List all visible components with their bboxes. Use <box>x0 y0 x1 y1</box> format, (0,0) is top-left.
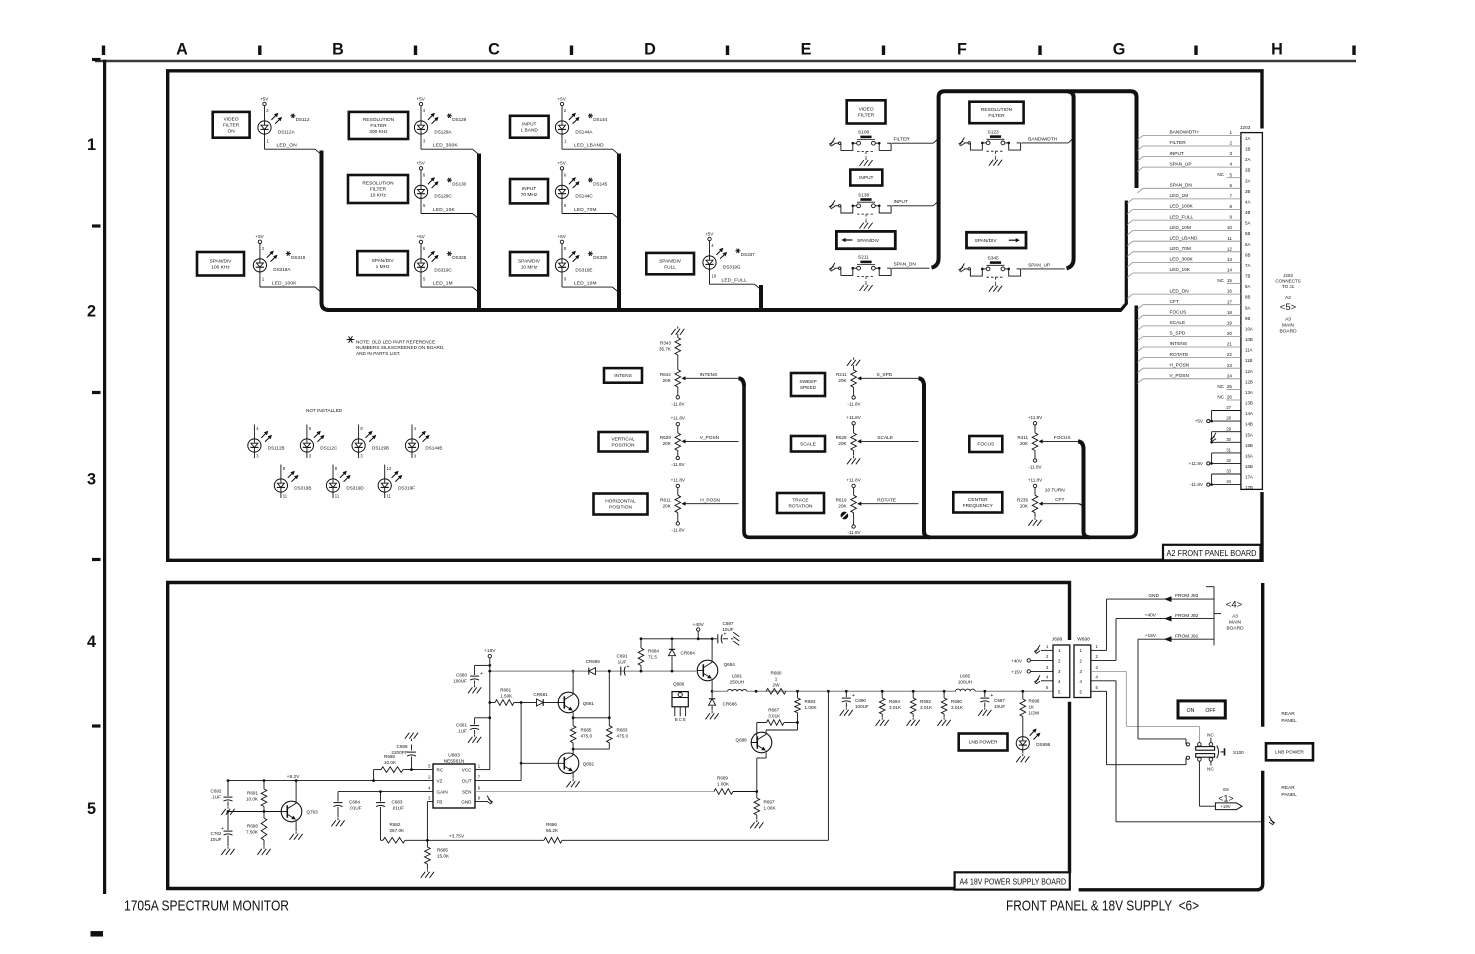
svg-text:FREQUENCY: FREQUENCY <box>963 503 994 509</box>
svg-text:+40V: +40V <box>1011 658 1023 663</box>
J203 pin 20 S_SPD <box>1137 337 1143 342</box>
svg-text:2B: 2B <box>1245 168 1250 173</box>
wire feedback +3.75V <box>381 839 384 841</box>
svg-text:3A: 3A <box>1245 178 1250 183</box>
svg-text:LED_300K: LED_300K <box>1170 257 1194 263</box>
svg-text:FILTER: FILTER <box>894 137 911 143</box>
svg-text:SWEEP: SWEEP <box>799 379 816 385</box>
wire LED_70M to bus <box>561 198 563 213</box>
svg-text:300 KHz: 300 KHz <box>369 129 388 135</box>
svg-text:30: 30 <box>1226 437 1231 442</box>
wire main output rail <box>712 690 727 692</box>
svg-text:A3: A3 <box>1285 317 1291 323</box>
resistor R685 15.0K <box>426 840 428 847</box>
svg-text:NC: NC <box>1217 172 1224 177</box>
capacitor C690 100UF <box>845 690 848 693</box>
svg-text:1.00K: 1.00K <box>764 806 777 811</box>
wire U683 FB <box>427 801 433 803</box>
svg-text:SPAN/DIV: SPAN/DIV <box>518 258 541 264</box>
svg-text:3.01K: 3.01K <box>951 705 964 710</box>
bus top curve col pot3 <box>1078 441 1084 449</box>
svg-text:+11.8V: +11.8V <box>1189 461 1204 466</box>
J203 pin 3 INPUT <box>1137 157 1143 162</box>
J203 pin 8 LED_100K <box>1127 210 1133 215</box>
svg-text:SPAN_DN: SPAN_DN <box>1170 183 1193 189</box>
svg-text:H: H <box>1271 41 1283 59</box>
capacitor C691 1UF <box>620 667 622 676</box>
J203 pin 4 SPAN_UP <box>1137 167 1143 172</box>
svg-text:CR681: CR681 <box>533 692 548 697</box>
svg-text:20K: 20K <box>663 504 672 509</box>
svg-text:VZ: VZ <box>437 778 443 783</box>
J203 pin 10 LED_10M <box>1127 231 1133 236</box>
svg-text:ROTATE: ROTATE <box>1170 352 1189 358</box>
svg-text:R683: R683 <box>617 728 628 733</box>
svg-text:C684: C684 <box>349 800 360 805</box>
svg-text:R619: R619 <box>836 498 847 503</box>
wire U683 SEN <box>475 791 714 793</box>
svg-text:+5V: +5V <box>417 161 426 166</box>
svg-text:INTENS: INTENS <box>614 373 632 379</box>
svg-text:LED_300K: LED_300K <box>433 143 458 149</box>
wire R693 to Q688 collector <box>766 729 797 731</box>
not-installed LED DS319F <box>384 465 386 480</box>
svg-text:R211: R211 <box>836 372 847 377</box>
old-ref asterisk DS330 <box>588 253 593 255</box>
svg-text:PANEL: PANEL <box>1281 718 1297 724</box>
svg-text:ROTATE: ROTATE <box>877 497 896 503</box>
svg-text:2A: 2A <box>1245 157 1250 162</box>
svg-text:1705A SPECTRUM MONITOR: 1705A SPECTRUM MONITOR <box>124 897 289 914</box>
svg-text:R697: R697 <box>764 800 775 805</box>
legend box VERTICAL POSITION <box>599 432 648 452</box>
resistor R686 56.2K <box>544 838 562 844</box>
J203 pin pair 29/30 ground <box>1212 431 1241 433</box>
svg-text:DS319: DS319 <box>291 255 305 260</box>
legend box LNB POWER <box>959 734 1008 751</box>
svg-text:9A: 9A <box>1245 305 1250 310</box>
pot R619 ROTATE <box>851 495 857 513</box>
svg-text:11: 11 <box>387 494 392 499</box>
svg-text:2: 2 <box>87 303 96 321</box>
transistor Q684 <box>697 660 718 681</box>
not-installed LED DS144B <box>411 425 413 440</box>
svg-text:SPAN_UP: SPAN_UP <box>1170 161 1192 167</box>
svg-text:6: 6 <box>1229 183 1232 188</box>
wire GND to main board <box>1107 598 1215 600</box>
svg-text:+5V: +5V <box>417 234 426 239</box>
front panel legend box SPAN/DIV FULL <box>646 253 694 274</box>
svg-text:56.2K: 56.2K <box>546 828 559 833</box>
svg-text:100 KHz: 100 KHz <box>211 264 230 270</box>
svg-text:4A: 4A <box>1245 200 1250 205</box>
J698 pin 4 chassis <box>1041 680 1053 682</box>
column ruler tick marks <box>102 46 105 56</box>
svg-text:S100: S100 <box>1233 750 1244 755</box>
svg-text:14A: 14A <box>1245 411 1253 416</box>
svg-text:DS129A: DS129A <box>434 129 452 134</box>
J203 pin pair 27/28 +5V <box>1212 410 1241 412</box>
resistor R688 10.0K <box>381 767 403 773</box>
svg-text:HORIZONTAL: HORIZONTAL <box>605 499 636 505</box>
wire LED_100K to bus <box>259 272 261 287</box>
svg-text:+8.2V: +8.2V <box>287 774 300 780</box>
svg-text:3: 3 <box>87 471 96 489</box>
wire LED_10K to bus <box>420 198 422 213</box>
svg-text:E6: E6 <box>1223 787 1229 792</box>
svg-text:B C E: B C E <box>675 717 686 722</box>
svg-text:R685: R685 <box>581 728 592 733</box>
ground U683 GND pin <box>475 801 487 803</box>
inductor L685 100UH <box>956 689 976 691</box>
svg-text:R681: R681 <box>500 687 511 692</box>
svg-text:NC: NC <box>1207 732 1214 737</box>
wire FOCUS net <box>1047 440 1079 442</box>
svg-text:35.7K: 35.7K <box>659 347 672 352</box>
neg 11.8V below R629 <box>677 451 679 457</box>
svg-text:20K: 20K <box>838 378 847 383</box>
svg-text:LED_70M: LED_70M <box>574 207 597 213</box>
svg-text:+18V: +18V <box>1220 804 1230 809</box>
svg-text:FILTER: FILTER <box>1170 140 1187 146</box>
resistor R693 1.00K <box>796 690 799 693</box>
svg-text:S_SPD: S_SPD <box>877 372 893 378</box>
svg-text:LED_1M: LED_1M <box>1170 193 1189 199</box>
wire LED_LBAND to bus <box>561 134 563 149</box>
legend box SPAN/DIV down <box>836 231 895 248</box>
svg-text:1 MHz: 1 MHz <box>376 264 390 270</box>
ground below R236 <box>1034 513 1036 517</box>
svg-text:10A: 10A <box>1245 327 1253 332</box>
svg-text:INPUT: INPUT <box>859 175 873 181</box>
svg-text:LED_100K: LED_100K <box>1170 204 1194 210</box>
J203 pin pair 33/34 -11.8V <box>1212 473 1241 475</box>
wire ROTATE net <box>865 503 919 505</box>
svg-text:9: 9 <box>1229 215 1232 220</box>
svg-text:15B: 15B <box>1245 443 1253 448</box>
wire U683 OUT <box>475 780 521 782</box>
svg-text:+11.8V: +11.8V <box>1028 415 1043 420</box>
wire LED_1M to bus <box>420 272 422 287</box>
svg-text:C688: C688 <box>397 744 408 749</box>
not-installed LED DS129B <box>358 425 360 440</box>
svg-text:LED_10K: LED_10K <box>433 207 456 213</box>
A4 board outline <box>168 583 1070 889</box>
svg-text:28: 28 <box>1226 416 1231 421</box>
svg-text:Q681: Q681 <box>583 701 595 706</box>
svg-text:5: 5 <box>1229 172 1232 177</box>
bus switch column F <box>1067 91 1074 268</box>
J203 pin 16 LED_ON <box>1127 294 1133 299</box>
svg-text:SCALE: SCALE <box>877 435 893 441</box>
svg-text:10B: 10B <box>1245 337 1253 342</box>
svg-text:J203: J203 <box>1283 273 1293 278</box>
screwdriver adjust mark <box>841 512 848 519</box>
svg-text:CR685: CR685 <box>586 659 601 664</box>
svg-text:SPAN_UP: SPAN_UP <box>1028 262 1050 268</box>
svg-text:R693: R693 <box>805 699 816 704</box>
svg-text:A2: A2 <box>1285 295 1291 301</box>
svg-text:-11.8V: -11.8V <box>847 530 861 535</box>
svg-text:+40V: +40V <box>1145 613 1157 619</box>
bus vertical col C <box>617 154 621 312</box>
svg-text:R692: R692 <box>920 699 931 704</box>
bus top curve col pot1 <box>739 378 745 386</box>
pot R211 S_SPD <box>851 370 857 387</box>
svg-text:+11.8V: +11.8V <box>671 415 686 420</box>
svg-text:FULL: FULL <box>664 264 676 270</box>
svg-text:FILTER: FILTER <box>988 113 1005 119</box>
svg-text:GND: GND <box>461 799 472 804</box>
svg-text:6A: 6A <box>1245 242 1250 247</box>
svg-text:FROM J92: FROM J92 <box>1175 613 1199 619</box>
old-ref asterisk DS145 <box>588 179 593 181</box>
svg-text:ON: ON <box>1187 708 1195 714</box>
diode CR684 <box>671 639 673 649</box>
pot R628 SCALE <box>851 433 857 451</box>
legend box ON OFF <box>1178 701 1225 718</box>
capacitor C697 10UF <box>698 638 717 640</box>
wire INTENS net <box>689 377 739 379</box>
svg-text:FILTER: FILTER <box>370 187 387 193</box>
svg-text:+11.8V: +11.8V <box>1028 477 1043 482</box>
svg-text:8: 8 <box>1229 204 1232 209</box>
J203 pin 22 ROTATE <box>1137 358 1143 363</box>
svg-text:NUMBERS SILKSCREENED ON BOARD,: NUMBERS SILKSCREENED ON BOARD, <box>356 345 445 350</box>
border frame top ruler line <box>95 60 1356 63</box>
pot R611 H_POSN <box>675 495 681 513</box>
wire Q682 base <box>520 703 522 781</box>
front panel legend box SPAN/DIV 100 KHz <box>197 252 244 276</box>
bus pot collector <box>744 306 1136 538</box>
svg-text:A4 18V POWER SUPPLY BOARD: A4 18V POWER SUPPLY BOARD <box>960 877 1067 887</box>
svg-text:INPUT: INPUT <box>1170 151 1184 157</box>
svg-text:C691: C691 <box>617 653 628 658</box>
svg-text:CENTER: CENTER <box>968 497 988 503</box>
svg-text:INPUT: INPUT <box>522 186 536 192</box>
svg-text:R698: R698 <box>1029 699 1040 704</box>
legend box SPAN/DIV up <box>967 232 1027 248</box>
svg-text:R687: R687 <box>768 708 779 713</box>
svg-text:V_POSN: V_POSN <box>1170 373 1190 379</box>
capacitor C683 .01UF <box>380 792 382 802</box>
svg-text:+3.75V: +3.75V <box>449 833 465 839</box>
svg-text:20K: 20K <box>1020 441 1029 446</box>
svg-text:1: 1 <box>87 136 96 154</box>
svg-text:B: B <box>332 41 344 59</box>
not-installed LED DS319D <box>332 465 334 480</box>
svg-text:8A: 8A <box>1245 284 1250 289</box>
svg-text:24: 24 <box>1227 373 1233 378</box>
diode CR685 <box>589 668 596 675</box>
svg-text:DS144A: DS144A <box>575 129 593 134</box>
svg-text:5B: 5B <box>1245 231 1250 236</box>
svg-text:26: 26 <box>1227 395 1233 400</box>
svg-text:SPAN_DN: SPAN_DN <box>894 262 917 268</box>
svg-text:SPAN/DIV: SPAN/DIV <box>209 258 232 264</box>
resistor R687 3.01K <box>757 722 767 724</box>
svg-text:J203: J203 <box>1240 125 1251 131</box>
svg-text:DS330: DS330 <box>593 255 607 260</box>
svg-text:10 MHz: 10 MHz <box>521 264 538 270</box>
svg-text:S138: S138 <box>858 192 870 198</box>
svg-text:SCALE: SCALE <box>800 441 816 447</box>
svg-text:MAIN: MAIN <box>1282 323 1295 329</box>
svg-text:DS129C: DS129C <box>434 194 452 199</box>
svg-text:12A: 12A <box>1245 369 1253 374</box>
svg-text:R694: R694 <box>889 699 900 704</box>
svg-text:R611: R611 <box>660 498 671 503</box>
svg-text:11A: 11A <box>1245 348 1253 353</box>
wire FILTER net <box>892 142 933 144</box>
svg-text:LED_100K: LED_100K <box>272 280 297 286</box>
switch S100 <box>1198 743 1202 747</box>
svg-text:DS319B: DS319B <box>294 486 311 491</box>
LED DS144A <box>555 121 568 134</box>
svg-text:A: A <box>176 41 188 59</box>
transistor Q763 <box>281 801 302 822</box>
svg-text:20K: 20K <box>663 378 672 383</box>
wire H_POSN net <box>689 503 739 505</box>
svg-text:+: + <box>990 693 993 699</box>
svg-text:31: 31 <box>1226 448 1231 453</box>
svg-text:11: 11 <box>335 494 340 499</box>
svg-text:DS319D: DS319D <box>346 486 364 491</box>
svg-text:34: 34 <box>1226 479 1231 484</box>
svg-text:FILTER: FILTER <box>858 113 875 119</box>
svg-text:CR686: CR686 <box>723 702 738 707</box>
svg-text:S123: S123 <box>988 129 1000 135</box>
svg-text:R628: R628 <box>836 435 847 440</box>
capacitor C680 100UF <box>475 664 490 666</box>
bus vertical pot col 2 <box>924 384 930 537</box>
svg-text:NC: NC <box>1217 384 1224 389</box>
resistor R683 475.0 <box>608 671 610 726</box>
svg-text:11B: 11B <box>1245 358 1253 363</box>
legend box LNB POWER rear <box>1266 743 1313 760</box>
A2 board label box <box>1163 545 1261 561</box>
svg-text:LED_10M: LED_10M <box>1170 225 1191 231</box>
svg-text:S108: S108 <box>858 130 870 136</box>
svg-text:S_SPD: S_SPD <box>1170 331 1186 337</box>
wire +15V to switch <box>1137 639 1139 739</box>
svg-text:LED_10M: LED_10M <box>574 281 597 287</box>
svg-text:<1>: <1> <box>1218 793 1233 803</box>
bus riser to J203 LED pins <box>1120 201 1126 311</box>
svg-text:R691: R691 <box>247 791 258 796</box>
svg-text:Q686: Q686 <box>673 682 685 687</box>
J203 pin 1 BANDWIDTH <box>1137 135 1143 140</box>
svg-text:LED_FULL: LED_FULL <box>722 278 747 284</box>
J698 pin 2 +40V <box>1031 659 1054 661</box>
svg-text:L681: L681 <box>732 674 743 679</box>
svg-text:L685: L685 <box>960 674 971 679</box>
J203 pin 14 LED_10K <box>1127 273 1133 278</box>
svg-text:10.0K: 10.0K <box>384 760 397 765</box>
svg-text:DS130: DS130 <box>452 182 466 187</box>
svg-text:1UF: 1UF <box>618 659 627 664</box>
W698 pin 1 wire GND <box>1091 649 1107 651</box>
W698 pin 2 wire +40V <box>1091 659 1116 661</box>
A4 board label box <box>955 872 1070 889</box>
svg-text:VERTICAL: VERTICAL <box>611 436 635 442</box>
svg-text:NC: NC <box>1207 766 1214 771</box>
wire V_POSN net <box>689 440 739 442</box>
svg-text:1A: 1A <box>1245 136 1250 141</box>
bus vertical col A <box>322 151 330 311</box>
svg-text:S211: S211 <box>858 255 869 261</box>
svg-text:+5V: +5V <box>558 96 567 101</box>
wire LED_FULL to bus <box>709 269 711 284</box>
svg-text:DS145: DS145 <box>593 182 607 187</box>
LED DS129A <box>414 121 427 134</box>
front panel legend box INPUT 70 MHz <box>510 179 548 203</box>
wire Q684 emitter <box>711 681 713 691</box>
svg-text:DS112C: DS112C <box>320 446 338 451</box>
svg-text:DS319E: DS319E <box>575 267 592 272</box>
wire INPUT net <box>892 205 933 207</box>
resistor R689 1.00K <box>714 789 733 795</box>
svg-text:DS325: DS325 <box>452 255 466 260</box>
old-ref asterisk DS130 <box>447 179 452 181</box>
wire Q682 emitter ground <box>572 774 574 779</box>
wire Q688 emitter <box>765 753 767 758</box>
svg-text:VCC: VCC <box>462 767 472 772</box>
svg-text:100UH: 100UH <box>958 680 972 685</box>
wire U683 GAIN <box>338 791 433 793</box>
svg-text:R685: R685 <box>437 848 448 853</box>
LED DS698 <box>1016 737 1029 750</box>
wire feedback tap <box>827 691 829 840</box>
svg-text:BANDWIDTH: BANDWIDTH <box>1170 130 1200 136</box>
inductor L681 250UH <box>727 690 747 692</box>
ground above R343 <box>677 327 679 329</box>
svg-text:INPUT: INPUT <box>522 121 536 127</box>
rear panel line lower <box>1079 771 1263 890</box>
J698 pin 3 +15V <box>1031 670 1054 672</box>
svg-text:BANDWIDTH: BANDWIDTH <box>1028 136 1058 142</box>
svg-text:NOT INSTALLED: NOT INSTALLED <box>306 408 343 413</box>
svg-text:LED_ON: LED_ON <box>1170 288 1190 294</box>
svg-text:R689: R689 <box>717 776 728 781</box>
wire SCALE net <box>865 440 919 442</box>
svg-text:TRACE: TRACE <box>792 498 808 504</box>
transistor Q688 <box>751 732 772 753</box>
svg-text:GND: GND <box>1148 593 1159 599</box>
svg-text:15.0K: 15.0K <box>437 854 450 859</box>
svg-text:1.00K: 1.00K <box>717 782 730 787</box>
old-ref asterisk DS112 <box>290 115 295 117</box>
svg-text:FB: FB <box>437 799 443 804</box>
svg-text:1B: 1B <box>1245 147 1250 152</box>
svg-text:12: 12 <box>1227 246 1233 251</box>
svg-text:DS129: DS129 <box>452 117 466 122</box>
svg-text:SPAN/DIV: SPAN/DIV <box>857 238 880 244</box>
svg-text:SEN: SEN <box>462 789 471 794</box>
svg-text:OUT: OUT <box>462 778 472 783</box>
svg-text:13B: 13B <box>1245 401 1253 406</box>
svg-text:19: 19 <box>1227 321 1233 326</box>
wire S_SPD net <box>865 377 919 379</box>
svg-text:G: G <box>1113 41 1126 59</box>
front panel legend box SPAN/DIV 1 MHz <box>357 251 408 275</box>
resistor R684 71.5 <box>640 639 642 648</box>
svg-text:+11.8V: +11.8V <box>846 415 861 420</box>
svg-text:100UF: 100UF <box>453 679 467 684</box>
legend box HORIZONTAL POSITION <box>594 494 648 515</box>
svg-text:3B: 3B <box>1245 189 1250 194</box>
J203 pin pair 31/32 +11.8V <box>1212 452 1241 454</box>
